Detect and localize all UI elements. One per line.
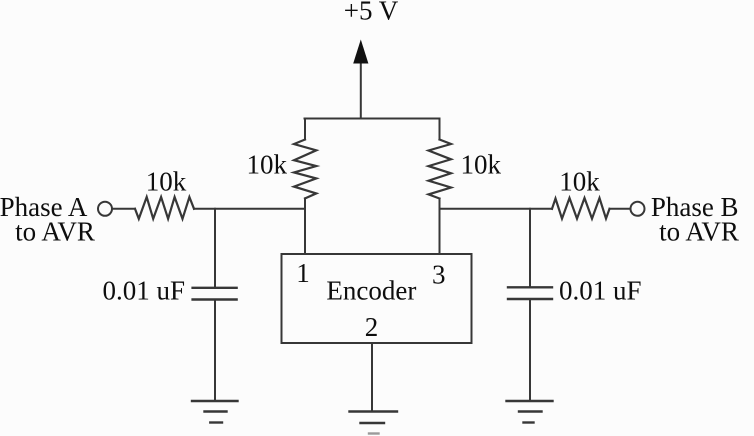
wire: rail to left pull-up <box>304 119 306 140</box>
resistor 10k Phase A series <box>135 197 194 219</box>
ground (pin 2) <box>350 412 398 434</box>
svg-text:Encoder: Encoder <box>326 276 416 306</box>
svg-text:0.01 uF: 0.01 uF <box>559 276 642 306</box>
Phase B label <box>651 192 739 247</box>
svg-text:2: 2 <box>365 312 379 342</box>
ground (node B) <box>507 401 553 423</box>
svg-text:to AVR: to AVR <box>15 217 95 247</box>
svg-text:10k: 10k <box>461 150 502 180</box>
resistor 10k left pull-up <box>294 140 316 199</box>
resistor 10k right pull-up <box>429 140 452 199</box>
capacitor 0.01uF (A): top lead <box>214 209 216 288</box>
capacitor 0.01uF (A): plates <box>193 287 237 289</box>
svg-text:10k: 10k <box>247 150 288 180</box>
capacitor 0.01uF (B): bottom lead <box>529 299 531 401</box>
svg-text:10k: 10k <box>559 167 600 197</box>
capacitor 0.01uF (B): plates <box>508 286 552 288</box>
svg-text:to AVR: to AVR <box>659 217 739 247</box>
svg-text:10k: 10k <box>146 167 187 197</box>
svg-text:3: 3 <box>432 260 446 290</box>
Phase B terminal circle <box>631 202 645 216</box>
capacitor 0.01uF (A): bottom lead <box>214 300 216 401</box>
Phase A label <box>0 192 95 247</box>
wire: +5V rail <box>305 118 440 120</box>
wire: pin 2 to ground <box>371 343 373 411</box>
capacitor 0.01uF (B): top lead <box>529 209 531 287</box>
wire: rail to right pull-up <box>439 119 441 140</box>
wire: resistor to node A <box>194 208 305 210</box>
wire: resistor to Phase B terminal <box>610 208 631 210</box>
power arrow VCC <box>353 40 368 119</box>
wire: right pull-up to pin 3 <box>439 199 441 255</box>
Phase A terminal circle <box>98 202 112 216</box>
resistor 10k Phase B series <box>552 198 610 219</box>
ground (node A) <box>192 401 238 423</box>
svg-text:+5 V: +5 V <box>344 0 399 26</box>
encoder U1 box <box>282 254 472 343</box>
wire: left pull-up to node A / pin 1 <box>304 198 306 254</box>
svg-text:0.01 uF: 0.01 uF <box>102 276 185 306</box>
wire: pin 3 node to Phase B resistor <box>440 208 553 210</box>
svg-text:1: 1 <box>296 258 310 288</box>
wire: Phase A terminal to resistor <box>112 208 135 210</box>
